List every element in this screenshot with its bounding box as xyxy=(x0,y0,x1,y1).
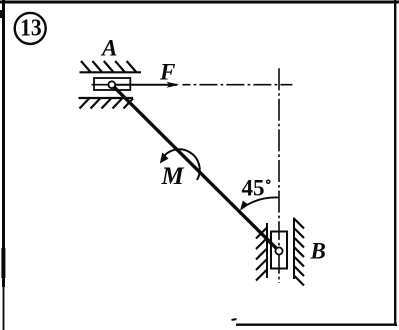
svg-text:F: F xyxy=(159,60,175,85)
horizontal dash-dot axis xyxy=(182,84,292,86)
45 degree arc xyxy=(242,197,279,208)
left border nub artifact xyxy=(0,10,2,18)
wall right of B xyxy=(293,218,295,280)
vertical dash-dot axis xyxy=(278,68,280,283)
bottom guide hatching xyxy=(80,99,134,109)
frame top border xyxy=(0,1,399,4)
force F arrowhead xyxy=(167,82,180,88)
force F line xyxy=(112,84,177,86)
frame right border xyxy=(394,0,396,326)
svg-text:M: M xyxy=(161,163,185,190)
top guide surface line xyxy=(80,71,142,73)
bottom guide surface line xyxy=(79,97,134,99)
pin B xyxy=(275,247,282,254)
right wall hatching xyxy=(295,219,305,286)
pin A xyxy=(108,81,115,88)
svg-text:13: 13 xyxy=(20,16,42,42)
rod AB xyxy=(112,85,279,251)
problem number circle 13 xyxy=(15,13,46,44)
rod end into pin B xyxy=(267,239,279,251)
frame left border xyxy=(2,0,5,287)
moment M arrowhead xyxy=(160,153,169,164)
frame bottom line (partial) xyxy=(236,324,397,326)
slider block B xyxy=(271,232,287,269)
slider block A xyxy=(94,78,130,90)
slider A center line xyxy=(92,84,109,86)
vertical dash-dot inside slider B xyxy=(278,232,280,269)
svg-text:45: 45 xyxy=(242,176,265,201)
small mark near bottom line xyxy=(231,318,236,321)
top guide hatching xyxy=(81,61,136,72)
svg-text:A: A xyxy=(100,36,117,61)
moment M arc xyxy=(162,149,200,180)
wall left of B xyxy=(266,223,268,278)
45 arc arrowhead xyxy=(240,201,248,211)
left wall hatching xyxy=(256,228,267,281)
svg-text:B: B xyxy=(310,239,326,264)
